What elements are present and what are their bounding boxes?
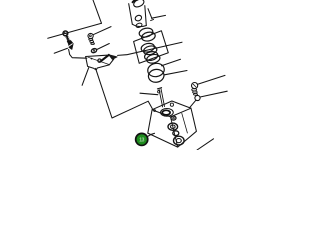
- small circle on top face: [170, 103, 173, 106]
- bracket hole: [98, 59, 101, 62]
- cylinder rim dark arc: [133, 0, 138, 2]
- bracket plate outline: [86, 55, 114, 70]
- fitting leader: [140, 93, 158, 95]
- o-ring 4: [174, 136, 185, 145]
- bracket dot: [91, 58, 93, 60]
- big ring: [147, 62, 166, 78]
- cylinder right edge: [145, 6, 147, 26]
- small ellipse on top face: [154, 110, 156, 112]
- bolt B2 head: [88, 33, 93, 38]
- cylinder rim: [132, 0, 145, 8]
- valve body right seam: [171, 117, 178, 147]
- washer W1 leader: [97, 44, 110, 50]
- valve body right face seam: [182, 113, 188, 133]
- plate leader: [118, 42, 182, 55]
- spring plate: [134, 31, 169, 64]
- panel zigzag edge: [69, 49, 87, 58]
- bolt B2 head dot: [90, 35, 92, 37]
- clip (black): [67, 41, 73, 50]
- bolt B3 head: [192, 83, 198, 89]
- o-ring 3: [173, 131, 179, 136]
- coil 3 leader: [162, 59, 181, 66]
- bracket fold line: [88, 57, 109, 64]
- badge leader: [148, 133, 155, 136]
- bracket arm (dark wedge): [101, 55, 109, 61]
- clip white slash: [68, 44, 72, 47]
- big ring leader: [165, 71, 188, 75]
- bottom right diagonal: [197, 139, 214, 150]
- valve body left edge: [148, 110, 152, 133]
- o-ring 1: [171, 116, 176, 120]
- panel roof edge / leader to bolt 1: [48, 23, 102, 38]
- bolt B3 threads: [192, 89, 197, 91]
- cylinder foot ellipse: [135, 22, 142, 28]
- bolt B1 threaded shaft: [67, 36, 69, 41]
- cylinder leader tick: [148, 9, 152, 19]
- bolt B2 threads: [89, 39, 93, 41]
- cylinder leader: [152, 15, 166, 18]
- coil 1: [138, 27, 153, 38]
- panel right leg and ridge: [96, 68, 153, 118]
- washer W2 drop line: [190, 100, 196, 107]
- washer W2: [195, 95, 200, 100]
- washer W2 leader: [200, 91, 227, 97]
- valve body top face: [152, 101, 191, 117]
- leader to clip: [54, 48, 67, 53]
- bolt B1 head: [63, 31, 68, 36]
- bolt B1 thread lines: [66, 36, 70, 41]
- cylinder side hole: [134, 14, 142, 22]
- fitting stem: [159, 88, 165, 107]
- svg-text:13: 13: [139, 137, 144, 143]
- o-ring 2: [168, 123, 178, 130]
- boss ring: [162, 110, 170, 115]
- bolt B3 leader: [198, 75, 225, 84]
- panel top steep edge: [93, 0, 102, 23]
- badge 13: [135, 133, 149, 147]
- washer W1: [91, 48, 97, 53]
- fitting stem ticks: [157, 88, 161, 89]
- panel left leg: [82, 68, 89, 86]
- valve body bottom front: [148, 108, 197, 147]
- bolt B2 leader: [93, 27, 111, 35]
- bolt B1 cross mark: [64, 32, 68, 35]
- washer W1 dot: [93, 50, 94, 51]
- fitting circle: [158, 91, 160, 93]
- boss outer: [161, 109, 174, 117]
- cylinder leader arrow dash: [151, 19, 154, 20]
- cylinder bottom arc: [132, 24, 146, 26]
- cylinder left edge: [129, 4, 133, 25]
- coil 3: [144, 50, 159, 61]
- coil 2: [140, 42, 155, 53]
